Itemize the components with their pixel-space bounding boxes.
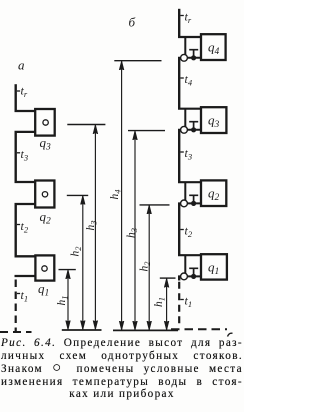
wire: junction line q1 (b) xyxy=(178,275,201,277)
wire: bypass at q1 (b) xyxy=(184,255,186,276)
tick t_g label b xyxy=(180,15,183,17)
wire: riser a section t2 xyxy=(14,204,16,256)
tick t2 label b xyxy=(180,229,183,231)
wire: inlet to radiator q2 (b) xyxy=(178,181,201,183)
dimension h4 (b): arrow line xyxy=(121,61,123,330)
svg-text:t2: t2 xyxy=(185,224,193,240)
dimension h1 (b): arrow line xyxy=(166,279,168,330)
svg-text:q2: q2 xyxy=(208,186,220,204)
wire: riser b stub below q1 junction xyxy=(178,276,180,280)
dimension h2 (a): arrow line xyxy=(82,196,84,329)
wire: inlet to radiator q3 (a) xyxy=(15,110,36,112)
wire: bypass at q3 (b) xyxy=(184,109,186,130)
dimension h2 (b): arrow line xyxy=(148,205,150,329)
wire: junction line q2 (b) xyxy=(178,202,201,204)
svg-text:q1: q1 xyxy=(38,281,49,299)
radiator Q2 (b) xyxy=(201,180,226,206)
wire: dashed floor line bottom left xyxy=(0,331,32,333)
valve at q1 (b): stem and cap xyxy=(189,268,198,276)
radiator Q2 (a) xyxy=(35,181,54,208)
node: temperature-change circle in q2 (a) xyxy=(42,192,47,197)
node: circle at q1 junction (b) xyxy=(181,273,188,280)
svg-text:q3: q3 xyxy=(40,135,52,153)
node: circle at q3 junction (b) xyxy=(181,126,188,133)
wire: riser a section t3 xyxy=(14,132,16,182)
figure caption xyxy=(1,337,243,401)
svg-text:q1: q1 xyxy=(208,260,219,278)
wire: riser b top section t_g xyxy=(178,9,180,37)
wire: junction line q4 (b) xyxy=(178,57,201,59)
svg-text:h2: h2 xyxy=(139,261,153,272)
node: temperature-change circle in q3 (a) xyxy=(43,120,48,125)
wire: bypass at q2 (b) xyxy=(184,182,186,203)
wire: junction line q3 (b) xyxy=(178,129,201,131)
tick t3 label a xyxy=(17,152,20,154)
wire: dashed riser b (t1 section) xyxy=(178,282,180,327)
svg-text:t2: t2 xyxy=(21,219,29,235)
radiator Q3 (b) xyxy=(201,107,226,133)
node: circle at q2 junction (b) xyxy=(181,200,188,207)
dimension h2 (a): extension bar xyxy=(67,194,88,196)
node: temperature-change circle in q1 (a) xyxy=(42,266,47,271)
dimension h1 (a): extension bar xyxy=(59,269,76,271)
radiator Q1 (a) xyxy=(35,255,54,280)
svg-text:h1: h1 xyxy=(153,297,167,307)
svg-text:h4: h4 xyxy=(109,189,123,200)
wire: inlet to radiator q2 (a) xyxy=(15,181,36,183)
wire: inlet to radiator q4 (b) xyxy=(178,36,201,38)
valve at q4 (b): stem and cap xyxy=(189,50,198,58)
baseline of dimensions (a) xyxy=(62,329,102,331)
valve at q1 (b): dot xyxy=(191,274,196,279)
svg-text:q2: q2 xyxy=(40,209,52,227)
dimension h3 (a): arrow line xyxy=(94,125,96,329)
wire: riser a top section t_g xyxy=(14,84,16,111)
dimension h3 (a): extension bar xyxy=(67,124,105,126)
svg-text:tr: tr xyxy=(185,10,192,26)
tick t3 label b xyxy=(180,151,183,153)
wire: outlet of q1 (a) xyxy=(15,275,36,277)
svg-text:q3: q3 xyxy=(208,113,220,131)
valve at q3 (b): dot xyxy=(191,127,196,132)
dimension h1 (a): arrow line xyxy=(67,270,69,329)
svg-text:h2: h2 xyxy=(70,246,84,257)
wire: riser b section t2 xyxy=(178,203,180,255)
baseline of dimensions (b) xyxy=(113,329,178,331)
svg-text:t3: t3 xyxy=(185,146,193,162)
wire: riser b section t4 xyxy=(178,58,180,109)
wire: riser b section t3 xyxy=(178,130,180,182)
svg-text:б: б xyxy=(129,15,136,30)
wire: outlet of q3 (a) xyxy=(15,131,36,133)
valve at q2 (b): stem and cap xyxy=(189,195,198,203)
wire: dashed floor line bottom right xyxy=(171,328,227,330)
dimension h3 (b): extension bar xyxy=(128,130,165,132)
svg-text:t1: t1 xyxy=(185,294,193,310)
node: circle at q4 junction (b) xyxy=(181,54,188,61)
wire: inlet to radiator q3 (b) xyxy=(178,108,201,110)
tick t_g label a xyxy=(17,90,20,92)
svg-text:t3: t3 xyxy=(21,147,29,163)
dimension h1 (b): extension bar xyxy=(160,277,176,279)
wire: inlet to radiator q1 (b) xyxy=(178,254,201,256)
radiator Q1 (b) xyxy=(201,254,227,279)
wire: inlet to radiator q1 (a) xyxy=(15,255,36,257)
svg-text:h3: h3 xyxy=(85,221,99,231)
artifact curl at line end xyxy=(228,333,233,336)
valve at q3 (b): stem and cap xyxy=(189,122,198,130)
radiator Q4 (b) xyxy=(201,34,226,60)
tick t2 label a xyxy=(17,224,20,226)
valve at q4 (b): dot xyxy=(191,55,196,60)
radiator Q3 (a) xyxy=(35,109,55,136)
valve at q2 (b): dot xyxy=(191,201,196,206)
tick t1 label a xyxy=(17,293,20,295)
tick t1 label b xyxy=(180,299,183,301)
svg-text:t4: t4 xyxy=(185,72,193,88)
wire: bypass at q4 (b) xyxy=(184,37,186,58)
tick t4 label b xyxy=(180,77,183,79)
svg-text:tr: tr xyxy=(21,84,28,100)
wire: outlet of q2 (a) xyxy=(15,203,36,205)
svg-text:а: а xyxy=(18,58,25,73)
wire: dashed riser a below q1 (t1 section) xyxy=(15,280,17,332)
dimension h4 (b): extension bar xyxy=(114,60,161,62)
dimension h3 (b): arrow line xyxy=(134,131,136,330)
svg-text:q4: q4 xyxy=(208,40,220,58)
svg-text:h1: h1 xyxy=(56,296,70,306)
svg-text:h3: h3 xyxy=(125,228,139,238)
svg-text:t1: t1 xyxy=(21,288,29,304)
dimension h2 (b): extension bar xyxy=(140,204,170,206)
